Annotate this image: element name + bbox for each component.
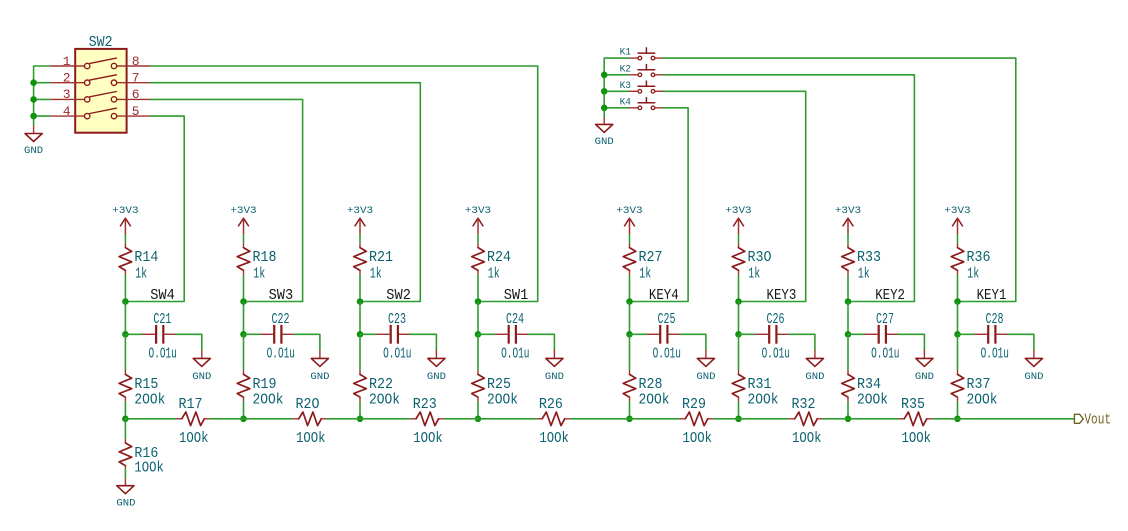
wire bus segment left of R32 bbox=[739, 418, 790, 420]
svg-text:+3V3: +3V3 bbox=[835, 205, 861, 217]
resistor R18 bbox=[237, 243, 250, 275]
svg-text:+3V3: +3V3 bbox=[725, 205, 751, 217]
svg-text:6: 6 bbox=[132, 87, 140, 102]
R16 value 100k bbox=[134, 459, 164, 476]
svg-text:KEY1: KEY1 bbox=[977, 288, 1007, 304]
resistor R33 bbox=[842, 243, 855, 275]
capacitor C22 bbox=[260, 325, 294, 344]
svg-text:1k: 1k bbox=[370, 265, 382, 282]
R24 reference text bbox=[487, 249, 511, 266]
svg-text:8: 8 bbox=[132, 54, 140, 69]
switch unit SW2 pin 3/6 contacts and lever bbox=[50, 92, 150, 103]
svg-text:2OOk: 2OOk bbox=[639, 392, 670, 409]
wire +3V3 to R14 bbox=[124, 234, 126, 243]
R24 value 1k bbox=[488, 265, 500, 282]
global label Vout bbox=[1074, 412, 1111, 428]
wire R16 to ground bbox=[124, 468, 126, 478]
resistor R36 bbox=[951, 243, 964, 275]
wire net SW1 from switch to column bbox=[150, 66, 537, 302]
R26 reference text bbox=[539, 396, 563, 413]
svg-text:R29: R29 bbox=[682, 396, 706, 413]
svg-text:Vout: Vout bbox=[1084, 412, 1111, 428]
svg-text:O.O1u: O.O1u bbox=[267, 346, 295, 363]
svg-text:R26: R26 bbox=[539, 396, 563, 413]
R35 reference text bbox=[901, 396, 925, 413]
power symbol +3V3 (column KEY1) bbox=[952, 218, 963, 234]
R15 reference text bbox=[134, 376, 158, 393]
wire bus segment right of R23 bbox=[444, 418, 478, 420]
+3V3 text (column KEY1) bbox=[944, 205, 970, 217]
ground at C28 bbox=[1025, 350, 1042, 367]
svg-text:R19: R19 bbox=[253, 376, 277, 393]
wire bus segment right of R26 bbox=[570, 418, 630, 420]
R28 reference text bbox=[639, 376, 663, 393]
svg-text:KEY2: KEY2 bbox=[875, 288, 905, 304]
svg-text:R37: R37 bbox=[967, 376, 991, 393]
wire bus segment left of R23 bbox=[360, 418, 410, 420]
junction at node KEY3 bbox=[735, 298, 742, 305]
svg-text:R15: R15 bbox=[134, 376, 158, 393]
svg-text:O.O1u: O.O1u bbox=[653, 346, 681, 363]
GND text at C27 bbox=[915, 371, 934, 383]
junction on bus at column SW2 bbox=[357, 416, 364, 423]
wire tap to C24 bbox=[478, 333, 495, 335]
wire +3V3 to R30 bbox=[738, 234, 740, 243]
R25 value 200k bbox=[487, 392, 518, 409]
svg-text:1k: 1k bbox=[967, 265, 979, 282]
C28 reference text bbox=[986, 311, 1004, 328]
R32 value 100k bbox=[792, 430, 822, 447]
wire node KEY1 down to capacitor tap bbox=[957, 302, 959, 335]
GND text below SW2 bbox=[24, 145, 43, 157]
svg-text:R27: R27 bbox=[639, 249, 663, 266]
svg-text:1OOk: 1OOk bbox=[134, 459, 164, 476]
svg-text:2OOk: 2OOk bbox=[487, 392, 518, 409]
wire bus segment right of R32 bbox=[823, 418, 848, 420]
svg-text:C27: C27 bbox=[876, 311, 894, 328]
C24 value 0.01u bbox=[501, 346, 529, 363]
ground at C24 bbox=[546, 350, 563, 367]
svg-text:C21: C21 bbox=[153, 311, 171, 328]
junction at C27 tap bbox=[845, 331, 852, 338]
wire tap down to R22 bbox=[359, 334, 361, 370]
net label SW4 bbox=[150, 288, 175, 304]
R17 value 100k bbox=[179, 430, 209, 447]
wire tap to C21 bbox=[125, 333, 142, 335]
net label SW2 bbox=[386, 288, 411, 304]
C27 reference text bbox=[876, 311, 894, 328]
power symbol +3V3 (column SW1) bbox=[473, 218, 484, 234]
svg-text:GND: GND bbox=[915, 371, 934, 383]
svg-text:R34: R34 bbox=[857, 376, 881, 393]
svg-text:+3V3: +3V3 bbox=[112, 205, 138, 217]
R35 value 100k bbox=[902, 430, 932, 447]
R15 value 200k bbox=[134, 392, 165, 409]
wire bus junction down to R16 bbox=[124, 419, 126, 439]
resistor R20 (series) bbox=[293, 412, 327, 426]
C26 reference text bbox=[767, 311, 785, 328]
R37 reference text bbox=[967, 376, 991, 393]
net label SW1 bbox=[504, 288, 529, 304]
svg-text:O.O1u: O.O1u bbox=[981, 346, 1009, 363]
pin number 5 (SW2 right) bbox=[132, 104, 140, 119]
C21 reference text bbox=[153, 311, 171, 328]
R30 reference text bbox=[748, 249, 772, 266]
R32 reference text bbox=[792, 396, 816, 413]
wire R22 to output bus bbox=[359, 402, 361, 419]
R30 value 1k bbox=[748, 265, 760, 282]
svg-text:2OOk: 2OOk bbox=[253, 392, 284, 409]
svg-text:C26: C26 bbox=[767, 311, 785, 328]
svg-text:1k: 1k bbox=[858, 265, 870, 282]
resistor R35 (series) bbox=[899, 412, 933, 426]
svg-text:KEY3: KEY3 bbox=[767, 288, 797, 304]
wire node SW2 down to capacitor tap bbox=[359, 302, 361, 335]
capacitor C27 bbox=[865, 325, 899, 344]
R21 value 1k bbox=[370, 265, 382, 282]
svg-text:5: 5 bbox=[132, 104, 140, 119]
wire C25 to ground bbox=[680, 334, 706, 350]
svg-text:K4: K4 bbox=[620, 96, 631, 108]
junction at node KEY4 bbox=[626, 298, 633, 305]
power symbol +3V3 (column SW2) bbox=[355, 218, 366, 234]
svg-text:C24: C24 bbox=[506, 311, 524, 328]
reference label K2 bbox=[620, 63, 631, 75]
wire R15 to output bus bbox=[124, 402, 126, 419]
R14 reference text bbox=[134, 249, 158, 266]
resistor R15 bbox=[119, 370, 132, 402]
wire R14 to node SW4 bbox=[124, 275, 126, 302]
wire +3V3 to R33 bbox=[847, 234, 849, 243]
svg-text:C22: C22 bbox=[272, 311, 290, 328]
svg-text:2OOk: 2OOk bbox=[857, 392, 888, 409]
R27 value 1k bbox=[639, 265, 651, 282]
svg-text:K1: K1 bbox=[620, 47, 631, 59]
resistor R16 bbox=[119, 439, 132, 469]
C27 value 0.01u bbox=[871, 346, 899, 363]
wire C27 to ground bbox=[899, 334, 925, 350]
R26 value 100k bbox=[539, 430, 569, 447]
svg-text:R28: R28 bbox=[639, 376, 663, 393]
wire R31 to output bus bbox=[738, 402, 740, 419]
wire +3V3 to R24 bbox=[477, 234, 479, 243]
svg-text:2: 2 bbox=[63, 71, 71, 86]
svg-text:R22: R22 bbox=[369, 376, 393, 393]
wire node SW1 down to capacitor tap bbox=[477, 302, 479, 335]
svg-text:1k: 1k bbox=[135, 265, 147, 282]
R21 reference text bbox=[369, 249, 393, 266]
junction at C23 tap bbox=[357, 331, 364, 338]
wire bus segment left of R17 bbox=[125, 418, 176, 420]
R37 value 200k bbox=[967, 392, 998, 409]
wire bus to Vout bbox=[958, 418, 1075, 420]
svg-text:1k: 1k bbox=[488, 265, 500, 282]
wire C26 to ground bbox=[789, 334, 815, 350]
+3V3 text (column SW1) bbox=[465, 205, 491, 217]
net label SW3 bbox=[269, 288, 294, 304]
C23 reference text bbox=[388, 311, 406, 328]
svg-text:2OOk: 2OOk bbox=[369, 392, 400, 409]
pin number 4 (SW2 left) bbox=[63, 104, 71, 119]
svg-text:R14: R14 bbox=[134, 249, 158, 266]
svg-text:GND: GND bbox=[1024, 371, 1043, 383]
resistor R21 bbox=[354, 243, 367, 275]
svg-text:GND: GND bbox=[805, 371, 824, 383]
GND text at C21 bbox=[192, 371, 211, 383]
wire tap down to R37 bbox=[957, 334, 959, 370]
ground below SW2 bbox=[25, 126, 42, 142]
capacitor C25 bbox=[646, 325, 680, 344]
wire R28 to output bus bbox=[629, 402, 631, 419]
svg-text:K3: K3 bbox=[620, 80, 631, 92]
wire tap to C27 bbox=[848, 333, 865, 335]
wire R25 to output bus bbox=[477, 402, 479, 419]
svg-text:R36: R36 bbox=[967, 249, 991, 266]
wire R36 to node KEY1 bbox=[957, 275, 959, 302]
R34 reference text bbox=[857, 376, 881, 393]
R23 reference text bbox=[413, 396, 437, 413]
resistor R24 bbox=[472, 243, 485, 275]
R20 reference text bbox=[296, 396, 320, 413]
power symbol +3V3 (column KEY3) bbox=[733, 218, 744, 234]
pin number 7 (SW2 right) bbox=[132, 71, 140, 86]
wire tap down to R34 bbox=[847, 334, 849, 370]
junction at node SW4 bbox=[122, 298, 129, 305]
wire net KEY3 from switch to column bbox=[663, 91, 805, 301]
wire bus segment right of R29 bbox=[713, 418, 738, 420]
power symbol +3V3 (column KEY4) bbox=[624, 218, 635, 234]
svg-text:GND: GND bbox=[427, 371, 446, 383]
wire R34 to output bus bbox=[847, 402, 849, 419]
junction at C25 tap bbox=[626, 331, 633, 338]
wire tap to C22 bbox=[244, 333, 261, 335]
wire node KEY2 down to capacitor tap bbox=[847, 302, 849, 335]
push button K1 bbox=[629, 47, 663, 60]
svg-text:SW2: SW2 bbox=[386, 288, 411, 304]
junction on bus at column KEY1 bbox=[954, 416, 961, 423]
junction at node KEY2 bbox=[845, 298, 852, 305]
wire net KEY4 from switch to column bbox=[630, 108, 689, 302]
C28 value 0.01u bbox=[981, 346, 1009, 363]
+3V3 text (column SW3) bbox=[230, 205, 256, 217]
R33 reference text bbox=[857, 249, 881, 266]
wire C23 to ground bbox=[411, 334, 437, 350]
wire R30 to node KEY3 bbox=[738, 275, 740, 302]
resistor R28 bbox=[623, 370, 636, 402]
+3V3 text (column KEY2) bbox=[835, 205, 861, 217]
svg-text:R35: R35 bbox=[901, 396, 925, 413]
R19 reference text bbox=[253, 376, 277, 393]
svg-text:1OOk: 1OOk bbox=[179, 430, 209, 447]
wire bus segment left of R35 bbox=[848, 418, 899, 420]
push button K2 bbox=[629, 64, 663, 77]
wire R33 to node KEY2 bbox=[847, 275, 849, 302]
wire node SW3 down to capacitor tap bbox=[243, 302, 245, 335]
wire tap to C25 bbox=[630, 333, 647, 335]
R36 reference text bbox=[967, 249, 991, 266]
ground at C22 bbox=[311, 350, 328, 367]
ground at C27 bbox=[916, 350, 933, 367]
wire tap down to R28 bbox=[629, 334, 631, 370]
wire R21 to node SW2 bbox=[359, 275, 361, 302]
C22 reference text bbox=[272, 311, 290, 328]
junction at K3 bbox=[601, 88, 608, 95]
svg-text:R25: R25 bbox=[487, 376, 511, 393]
junction at C21 tap bbox=[122, 331, 129, 338]
junction at node SW1 bbox=[475, 298, 482, 305]
C25 reference text bbox=[658, 311, 676, 328]
svg-text:+3V3: +3V3 bbox=[616, 205, 642, 217]
C24 reference text bbox=[506, 311, 524, 328]
svg-text:2OOk: 2OOk bbox=[134, 392, 165, 409]
svg-text:C25: C25 bbox=[658, 311, 676, 328]
+3V3 text (column KEY3) bbox=[725, 205, 751, 217]
junction on bus at column KEY3 bbox=[735, 416, 742, 423]
R31 reference text bbox=[748, 376, 772, 393]
power symbol +3V3 (column SW4) bbox=[120, 218, 131, 234]
R20 value 100k bbox=[296, 430, 326, 447]
svg-text:+3V3: +3V3 bbox=[944, 205, 970, 217]
resistor R23 (series) bbox=[410, 412, 444, 426]
svg-text:1k: 1k bbox=[253, 265, 265, 282]
svg-text:K2: K2 bbox=[620, 63, 631, 75]
svg-text:SW2: SW2 bbox=[89, 34, 113, 51]
svg-text:GND: GND bbox=[116, 498, 135, 510]
C22 value 0.01u bbox=[267, 346, 295, 363]
svg-text:1OOk: 1OOk bbox=[792, 430, 822, 447]
R27 reference text bbox=[639, 249, 663, 266]
wire tap to C28 bbox=[958, 333, 975, 335]
junction at node SW2 bbox=[357, 298, 364, 305]
C25 value 0.01u bbox=[653, 346, 681, 363]
junction at C24 tap bbox=[475, 331, 482, 338]
svg-text:O.O1u: O.O1u bbox=[762, 346, 790, 363]
svg-text:1OOk: 1OOk bbox=[539, 430, 569, 447]
pin number 3 (SW2 left) bbox=[63, 87, 71, 102]
svg-text:R18: R18 bbox=[253, 249, 277, 266]
svg-text:GND: GND bbox=[545, 371, 564, 383]
net label KEY2 bbox=[875, 288, 905, 304]
svg-text:R2O: R2O bbox=[296, 396, 320, 413]
wire SW2 left common bus bbox=[34, 66, 51, 126]
capacitor C23 bbox=[377, 325, 411, 344]
R29 reference text bbox=[682, 396, 706, 413]
wire R18 to node SW3 bbox=[243, 275, 245, 302]
svg-text:R33: R33 bbox=[857, 249, 881, 266]
ground at C26 bbox=[806, 350, 823, 367]
resistor R22 bbox=[354, 370, 367, 402]
resistor R26 (series) bbox=[536, 412, 570, 426]
resistor R34 bbox=[842, 370, 855, 402]
R17 reference text bbox=[179, 396, 203, 413]
GND text below keys bbox=[595, 136, 614, 148]
switch unit SW2 pin 4/5 contacts and lever bbox=[50, 108, 150, 119]
ground at C25 bbox=[697, 350, 714, 367]
R18 reference text bbox=[253, 249, 277, 266]
svg-text:+3V3: +3V3 bbox=[347, 205, 373, 217]
C26 value 0.01u bbox=[762, 346, 790, 363]
R18 value 1k bbox=[253, 265, 265, 282]
svg-text:R24: R24 bbox=[487, 249, 511, 266]
wire +3V3 to R18 bbox=[243, 234, 245, 243]
svg-text:1OOk: 1OOk bbox=[413, 430, 443, 447]
capacitor C26 bbox=[755, 325, 789, 344]
junction at SW2 pin 4 bbox=[30, 113, 37, 120]
junction on bus at column SW4 bbox=[122, 416, 129, 423]
wire C28 to ground bbox=[1008, 334, 1034, 350]
wire bus segment right of R17 bbox=[210, 418, 244, 420]
+3V3 text (column SW2) bbox=[347, 205, 373, 217]
resistor R27 bbox=[623, 243, 636, 275]
GND text at C24 bbox=[545, 371, 564, 383]
svg-text:+3V3: +3V3 bbox=[230, 205, 256, 217]
junction at C22 tap bbox=[240, 331, 247, 338]
wire net SW3 from switch to column bbox=[150, 99, 302, 301]
GND text at C25 bbox=[696, 371, 715, 383]
wire C22 to ground bbox=[294, 334, 320, 350]
R25 reference text bbox=[487, 376, 511, 393]
wire +3V3 to R27 bbox=[629, 234, 631, 243]
reference label K4 bbox=[620, 96, 631, 108]
svg-text:R21: R21 bbox=[369, 249, 393, 266]
GND text at C23 bbox=[427, 371, 446, 383]
svg-text:O.O1u: O.O1u bbox=[501, 346, 529, 363]
GND text at C22 bbox=[310, 371, 329, 383]
resistor R25 bbox=[472, 370, 485, 402]
push button K3 bbox=[629, 81, 663, 94]
resistor R32 (series) bbox=[789, 412, 823, 426]
wire bus segment left of R20 bbox=[244, 418, 294, 420]
svg-text:R17: R17 bbox=[179, 396, 203, 413]
wire net KEY1 from switch to column bbox=[663, 58, 1015, 301]
wire bus segment right of R35 bbox=[932, 418, 957, 420]
svg-text:7: 7 bbox=[132, 71, 140, 86]
GND text below R16 bbox=[116, 498, 135, 510]
power symbol +3V3 (column KEY2) bbox=[843, 218, 854, 234]
ground at C23 bbox=[428, 350, 445, 367]
pin number 2 (SW2 left) bbox=[63, 71, 71, 86]
resistor R29 (series) bbox=[680, 412, 714, 426]
wire bus segment left of R26 bbox=[478, 418, 536, 420]
svg-text:R3O: R3O bbox=[748, 249, 772, 266]
svg-text:SW4: SW4 bbox=[150, 288, 175, 304]
svg-text:4: 4 bbox=[63, 104, 71, 119]
resistor R31 bbox=[732, 370, 745, 402]
wire node KEY4 down to capacitor tap bbox=[629, 302, 631, 335]
R16 reference text bbox=[134, 445, 158, 462]
net label KEY1 bbox=[977, 288, 1007, 304]
svg-text:R31: R31 bbox=[748, 376, 772, 393]
wire tap to C23 bbox=[360, 333, 377, 335]
wire R27 to node KEY4 bbox=[629, 275, 631, 302]
R22 reference text bbox=[369, 376, 393, 393]
net label KEY3 bbox=[767, 288, 797, 304]
pin number 8 (SW2 right) bbox=[132, 54, 140, 69]
R23 value 100k bbox=[413, 430, 443, 447]
junction at SW2 pin 2 bbox=[30, 79, 37, 86]
svg-text:2OOk: 2OOk bbox=[748, 392, 779, 409]
svg-text:SW3: SW3 bbox=[269, 288, 294, 304]
wire bus segment left of R29 bbox=[630, 418, 680, 420]
wire net SW2 from switch to column bbox=[150, 83, 420, 302]
junction on bus at column SW3 bbox=[240, 416, 247, 423]
svg-text:GND: GND bbox=[595, 136, 614, 148]
R36 value 1k bbox=[967, 265, 979, 282]
svg-text:1OOk: 1OOk bbox=[296, 430, 326, 447]
junction on bus at column KEY4 bbox=[626, 416, 633, 423]
svg-text:O.O1u: O.O1u bbox=[383, 346, 411, 363]
junction at node SW3 bbox=[240, 298, 247, 305]
